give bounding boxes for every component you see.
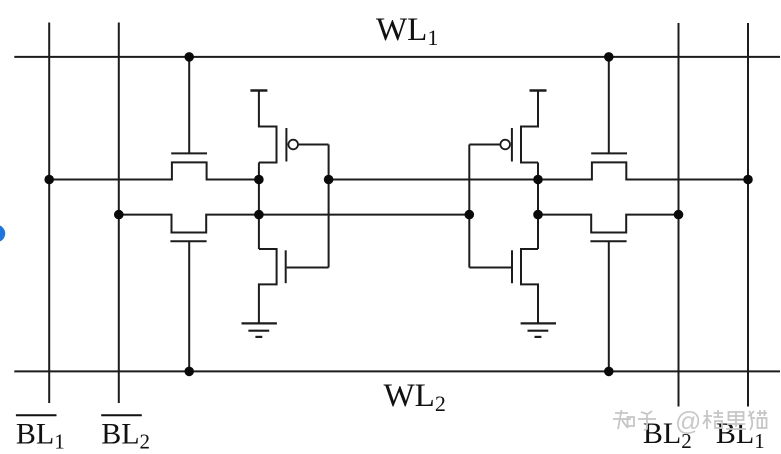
- wire right inverter output column: [537, 163, 539, 250]
- bit line BL1bar wire: [48, 23, 50, 404]
- wire left gate column (inverter input): [328, 145, 330, 268]
- ground symbol right: [521, 323, 556, 337]
- nmos M2 channel and drain lead: [259, 249, 277, 323]
- junction dot node Qbar at left gate column: [324, 175, 334, 185]
- junction dot node Q at left output upper: [254, 175, 264, 185]
- junction dot node Qbar at right output lower: [533, 210, 543, 220]
- power VDD stub left: [250, 89, 267, 92]
- pmos M3 source lead and channel: [521, 91, 538, 163]
- transistor M5 gate lead from WL1: [188, 57, 190, 153]
- wire node Qbar lower segment with access transistor M8 channel: [538, 215, 679, 233]
- junction dot BL2 x node Qbar wire: [674, 210, 684, 220]
- ground symbol left: [242, 323, 277, 337]
- transistor M6 gate lead to WL2: [188, 241, 190, 371]
- svg-text:BL2: BL2: [101, 418, 150, 454]
- pmos M1 source lead and channel: [259, 91, 277, 163]
- wire right gate column (inverter input): [468, 145, 470, 268]
- junction dot BL1 x node Qbar wire: [743, 175, 753, 185]
- pmos M1 gate bubble: [288, 140, 298, 150]
- pmos M1 gate bar: [285, 128, 287, 162]
- transistor M7 gate bar: [591, 152, 627, 154]
- pmos M3 gate wire: [469, 144, 500, 146]
- junction dot BL2bar x node Q wire: [114, 210, 124, 220]
- bit line BL2 wire: [678, 23, 680, 407]
- junction dot BL1bar x node Q wire: [44, 175, 54, 185]
- transistor M6 gate bar: [170, 240, 206, 242]
- wire node Qbar upper segment with access transistor M7 channel: [329, 162, 748, 179]
- nmos M2 gate bar: [285, 250, 287, 283]
- junction dot node Q at right gate column: [465, 210, 475, 220]
- watermark glyph ju: [703, 410, 723, 429]
- nmos M4 gate bar: [511, 250, 513, 283]
- svg-text:WL2: WL2: [384, 378, 446, 416]
- svg-text:@: @: [675, 406, 701, 436]
- junction dot WL1 x M5 gate: [184, 52, 194, 62]
- transistor M8 gate lead to WL2: [608, 241, 610, 371]
- junction dot node Qbar at right output upper: [533, 175, 543, 185]
- bit line BL2bar wire: [118, 23, 120, 404]
- label BL1bar overline: [16, 414, 57, 416]
- transistor M7 gate lead from WL1: [608, 57, 610, 153]
- watermark glyph hu: [638, 411, 656, 430]
- word line WL2 wire: [14, 370, 780, 372]
- nmos M4 channel and drain lead: [521, 249, 538, 323]
- watermark glyph mao: [748, 410, 767, 430]
- junction dot WL1 x M7 gate: [604, 52, 614, 62]
- pmos M3 gate bar: [511, 128, 513, 162]
- watermark zhihu logo blue dot: [0, 225, 5, 242]
- watermark text zhihu @juli-mao: [613, 410, 767, 430]
- label BL2bar overline: [101, 414, 142, 416]
- bit line BL1 wire: [747, 23, 749, 407]
- junction dot node Q at left output lower: [254, 210, 264, 220]
- watermark glyph zhi: [613, 410, 634, 429]
- transistor M8 gate bar: [590, 240, 626, 242]
- transistor M5 gate bar: [171, 152, 207, 154]
- pmos M1 gate wire: [298, 144, 329, 146]
- wire left inverter output column: [258, 163, 260, 250]
- junction dot WL2 x M8 gate: [604, 367, 614, 377]
- nmos M2 gate wire: [287, 267, 329, 269]
- word line WL1 wire: [14, 56, 780, 58]
- svg-text:BL1: BL1: [16, 418, 65, 454]
- power VDD stub right: [530, 89, 547, 92]
- wire node Q lower segment with access transistor M6 channel: [119, 215, 470, 233]
- svg-text:WL1: WL1: [376, 12, 438, 50]
- nmos M4 gate wire: [469, 267, 511, 269]
- wire node Q upper segment with access transistor M5 channel: [49, 162, 259, 179]
- watermark glyph li: [726, 412, 746, 429]
- junction dot WL2 x M6 gate: [184, 367, 194, 377]
- pmos M3 gate bubble: [500, 140, 510, 150]
